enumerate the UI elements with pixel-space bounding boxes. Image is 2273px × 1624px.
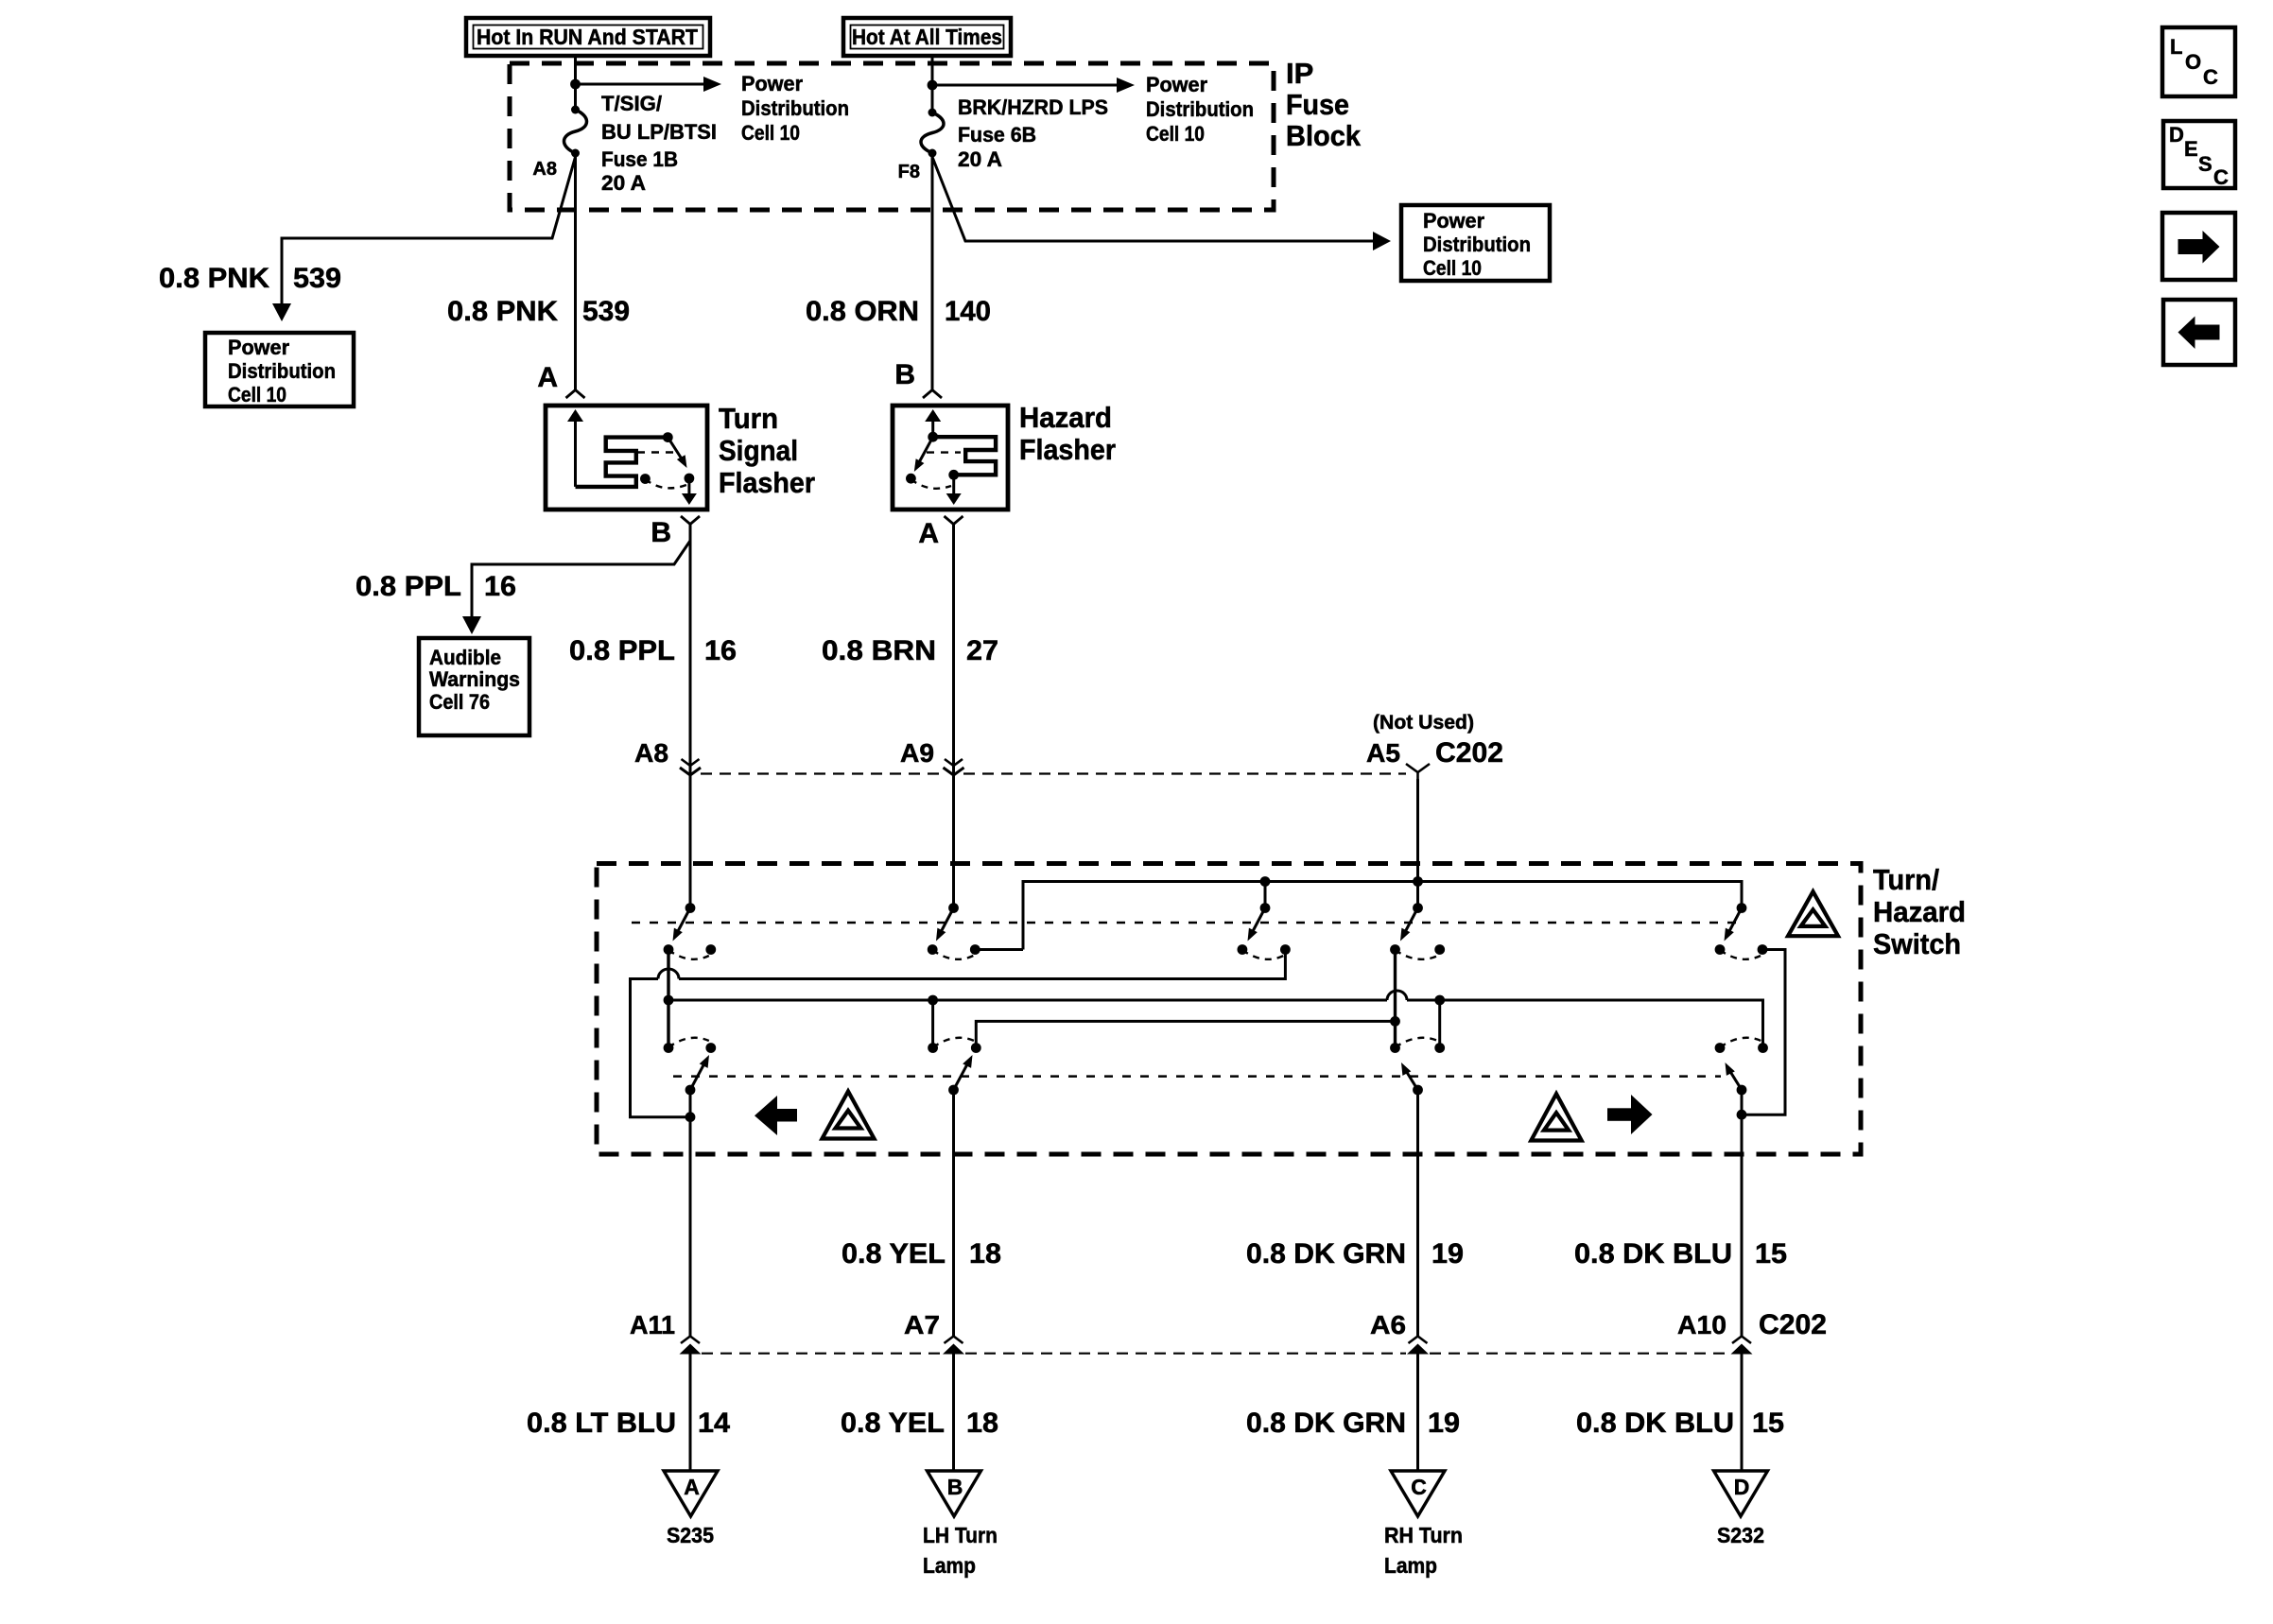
wire: arrow to Power Distribution Cell 10 (right, in fuse block) (932, 78, 1135, 93)
node: bus C junction at lower contact 4 stub (1434, 995, 1445, 1006)
wire: battery feed from header into fuse block (931, 56, 934, 85)
svg-text:C: C (1411, 1475, 1427, 1499)
hazard triangle symbol (lower left) (823, 1092, 875, 1139)
label: fuse 1B text (601, 92, 717, 195)
svg-text:19: 19 (1428, 1408, 1460, 1439)
wire: 0.8 DK GRN 19 to RH turn lamp (1416, 1346, 1419, 1471)
connector C202 upper: terminals at A9 (945, 759, 963, 766)
destination connector LH: triangle B (928, 1471, 981, 1516)
switch contacts 1 (lower row) (664, 1043, 674, 1053)
connector: female terminal at TSF pin B (681, 516, 700, 525)
svg-text:0.8 YEL: 0.8 YEL (842, 1238, 946, 1270)
svg-text:Distribution: Distribution (1423, 233, 1531, 256)
svg-text:539: 539 (582, 296, 630, 327)
svg-text:D: D (1734, 1475, 1750, 1499)
destination box: Power Distribution Cell 10 (left) (205, 333, 354, 406)
wire: 0.8 DK BLU 15 to S232 (1741, 1346, 1744, 1471)
svg-text:A: A (684, 1475, 700, 1499)
svg-text:0.8 PPL: 0.8 PPL (569, 635, 675, 666)
node: bus C junction at upper wiper 1 link (664, 995, 674, 1006)
destination connector S235: triangle A (664, 1471, 718, 1516)
svg-text:(Not Used): (Not Used) (1373, 712, 1474, 734)
wire: upper contact 1 to lower contact 1 link (667, 950, 669, 1048)
svg-text:14: 14 (698, 1408, 730, 1439)
connector C202 lower: terminals at A7 (945, 1337, 963, 1344)
switch bus B: left-turn output link (679, 950, 1285, 979)
node: bus C junction at lower contact 2 stub (928, 995, 938, 1006)
TSF: heater element (576, 438, 668, 487)
svg-text:O: O (2185, 50, 2201, 74)
svg-text:T/SIG/: T/SIG/ (601, 92, 662, 115)
svg-text:0.8 DK GRN: 0.8 DK GRN (1246, 1408, 1406, 1439)
label: 0.8 DK BLU 15 (above C202) (1574, 1238, 1787, 1270)
svg-text:C202: C202 (1759, 1309, 1827, 1340)
svg-text:27: 27 (966, 635, 998, 666)
svg-text:Turn/: Turn/ (1873, 863, 1939, 896)
legend: LOC box (2162, 27, 2235, 96)
switch wiper 2: arm arrow (936, 908, 954, 942)
svg-text:A8: A8 (634, 738, 668, 768)
label: 0.8 PPL 16 (branch) (356, 571, 516, 602)
switch wiper 1 (lower row): pivot (685, 1085, 696, 1096)
right-turn arrow symbol (1631, 1095, 1653, 1134)
svg-text:C: C (2213, 165, 2229, 189)
svg-text:Hazard: Hazard (1019, 401, 1112, 434)
svg-text:Cell 10: Cell 10 (741, 121, 800, 145)
switch swing arc 1 (upper row) (668, 950, 709, 959)
svg-text:A10: A10 (1677, 1310, 1726, 1339)
TSF: supply up-arrow (567, 409, 583, 487)
fuse F2: BRK/HZRD LPS fuse 6B 20A (921, 85, 944, 158)
svg-text:S235: S235 (667, 1523, 714, 1547)
label: fuse 6B text (958, 95, 1108, 171)
svg-text:A7: A7 (904, 1310, 940, 1339)
svg-text:Cell 10: Cell 10 (1423, 256, 1482, 280)
svg-text:Power: Power (1423, 209, 1484, 233)
svg-text:18: 18 (966, 1408, 998, 1439)
turn signal flasher U1: outline (546, 406, 707, 510)
node: bus A junction at A5 wire (1413, 876, 1423, 887)
switch contacts 3 (upper row) (1238, 944, 1248, 955)
switch contacts 2 (upper row) (928, 944, 938, 955)
switch wiper 5 (upper row): pivot (1737, 903, 1747, 913)
svg-text:RH Turn: RH Turn (1384, 1523, 1463, 1547)
label: Power Distribution Cell 10 (in fuse block, left) (741, 72, 849, 145)
svg-text:19: 19 (1431, 1238, 1464, 1270)
legend: left arrow box (2163, 300, 2235, 365)
switch contacts 4 (lower row) (1390, 1043, 1400, 1053)
hazard triangle symbol (lower right) (1531, 1094, 1581, 1140)
svg-text:A: A (918, 518, 939, 549)
switch wiper 4 (lower row): pivot (1413, 1085, 1423, 1096)
wire: lower wiper 5 to A10 (1741, 1090, 1744, 1337)
switch wiper 2 (upper row): pivot (948, 903, 959, 913)
label: 0.8 DK BLU 15 (below C202) (1576, 1408, 1784, 1439)
HF: output down-arrow (946, 475, 962, 505)
hazard triangle symbol (upper right) (1788, 891, 1838, 936)
switch wiper 5 (lower row): pivot (1737, 1085, 1747, 1096)
switch mechanical linkage (upper dashed) (632, 922, 1738, 924)
TSF: fixed contact node (heater end) (663, 432, 673, 442)
svg-text:Hot In RUN And START: Hot In RUN And START (477, 25, 698, 49)
connector C202 lower: terminals at A11 (681, 1337, 700, 1344)
legend: right arrow box (2162, 213, 2235, 280)
svg-text:S232: S232 (1717, 1523, 1764, 1547)
wire: 0.8 ORN 140 branch to Power Distribution (right) (932, 157, 1391, 251)
svg-text:539: 539 (293, 263, 341, 294)
svg-text:Switch: Switch (1873, 927, 1961, 960)
svg-text:Distribution: Distribution (228, 359, 336, 383)
switch swing arc 4 (lower row) (1396, 1038, 1438, 1047)
wire: lower wiper 2 to A7 (952, 1090, 955, 1337)
switch swing arc 3 (upper row) (1242, 950, 1284, 959)
label: Power Distribution Cell 10 (in fuse block, right) (1146, 73, 1254, 146)
switch swing arc 5 (upper row) (1720, 950, 1761, 959)
wire: upper contact 5 link to lower wiper 5 (1742, 950, 1785, 1115)
wire: upper contact 4 to lower contact 4 link (1394, 950, 1397, 1048)
svg-text:140: 140 (945, 296, 991, 327)
wire: 0.8 ORN 140 from fuse 6B to hazard flasher (931, 153, 934, 390)
switch wiper 1 (upper row): pivot (685, 903, 696, 913)
wire: lower wiper 4 to A6 (1416, 1090, 1419, 1337)
HF: wiper arrow (914, 437, 933, 472)
switch swing arc 2 (lower row) (933, 1038, 975, 1047)
switch contacts 1 (upper row) (664, 944, 674, 955)
svg-text:0.8 YEL: 0.8 YEL (841, 1408, 945, 1439)
svg-text:IP: IP (1286, 57, 1313, 90)
switch wiper 2 (lower row): pivot (948, 1085, 959, 1096)
svg-text:Warnings: Warnings (429, 667, 520, 691)
wire: stub bus C to lower right contact 4 (1438, 1000, 1441, 1048)
HF: supply up-arrow (925, 409, 941, 437)
svg-text:BRK/HZRD LPS: BRK/HZRD LPS (958, 95, 1108, 119)
wire: lower contact 2 to link of unit 4 (right-turn link) (976, 1021, 1395, 1047)
svg-text:B: B (894, 359, 915, 390)
label: IP Fuse Block (1286, 57, 1362, 152)
label: 0.8 PPL 16 (569, 635, 737, 666)
label: Turn/ Hazard Switch (1873, 863, 1966, 960)
wire: stub from bus A to wiper 3 pivot (1264, 882, 1267, 909)
label: 0.8 PNK 539 (447, 296, 630, 327)
switch swing arc 2 (upper row) (932, 950, 973, 959)
wire: stub bus C to lower left contact 2 (931, 1000, 934, 1048)
connector: female terminal at TSF pin A (566, 390, 585, 399)
svg-text:0.8 PNK: 0.8 PNK (447, 296, 558, 327)
TSF: swing arc (645, 479, 686, 488)
wire: 0.8 PPL 16 branch to Audible Warnings (462, 541, 690, 634)
switch swing arc 4 (upper row) (1396, 950, 1438, 959)
svg-text:Lamp: Lamp (923, 1553, 976, 1578)
svg-text:Hot At All Times: Hot At All Times (852, 25, 1002, 49)
destination connector S232: triangle D (1714, 1471, 1768, 1516)
HF: heater element (936, 437, 996, 475)
svg-text:20 A: 20 A (958, 147, 1002, 171)
node: bus A junction at wiper 3 stub (1260, 876, 1271, 887)
svg-text:Lamp: Lamp (1384, 1553, 1437, 1578)
svg-text:Cell 76: Cell 76 (429, 690, 490, 714)
svg-text:0.8 BRN: 0.8 BRN (822, 635, 936, 666)
svg-text:0.8 ORN: 0.8 ORN (806, 296, 919, 327)
header box: Hot In RUN And START (466, 18, 710, 56)
turn/hazard switch: dashed outline (597, 864, 1861, 1155)
svg-text:0.8 DK BLU: 0.8 DK BLU (1574, 1238, 1732, 1270)
svg-text:A8: A8 (532, 159, 557, 180)
switch mechanical linkage (lower dashed) (673, 1075, 1721, 1078)
svg-text:18: 18 (969, 1238, 1001, 1270)
svg-text:S: S (2198, 152, 2212, 176)
wire: 0.8 PNK 539 branch to Power Distribution (272, 157, 576, 321)
svg-text:15: 15 (1752, 1408, 1784, 1439)
HF: timing dashed link (927, 451, 961, 453)
label: RH Turn Lamp (1384, 1523, 1463, 1578)
node: junction on unit4 link (1390, 1016, 1400, 1027)
svg-text:D: D (2169, 123, 2184, 147)
svg-text:0.8 DK GRN: 0.8 DK GRN (1246, 1238, 1406, 1270)
switch contacts 2 (lower row) (928, 1043, 938, 1053)
svg-text:0.8 PPL: 0.8 PPL (356, 571, 461, 602)
svg-text:BU LP/BTSI: BU LP/BTSI (601, 120, 717, 144)
switch wiper 4 (upper row): pivot (1413, 903, 1423, 913)
HF: contact nodes (906, 474, 916, 484)
node: junction at lower wiper 5 wire (1737, 1110, 1747, 1120)
svg-text:Fuse: Fuse (1286, 88, 1349, 121)
destination connector RH: triangle C (1391, 1471, 1445, 1516)
connector C202 lower: dashed line (702, 1353, 942, 1355)
svg-text:Distribution: Distribution (1146, 97, 1254, 121)
svg-text:16: 16 (704, 635, 737, 666)
TSF: wiper arrow (668, 438, 686, 468)
svg-text:LH Turn: LH Turn (923, 1523, 998, 1547)
switch wiper 5 (lower row): arm arrow (1726, 1063, 1743, 1090)
svg-text:0.8 LT BLU: 0.8 LT BLU (527, 1408, 676, 1439)
left-turn arrow symbol (755, 1096, 777, 1135)
label: 0.8 YEL 18 (below C202) (841, 1408, 998, 1439)
svg-text:Block: Block (1286, 119, 1362, 152)
label: LH Turn Lamp (923, 1523, 998, 1578)
svg-text:Distribution: Distribution (741, 96, 849, 120)
label: 0.8 PNK 539 (branch) (159, 263, 341, 294)
header box: Hot At All Times (843, 18, 1011, 56)
connector C202 upper: dashed line (701, 772, 943, 774)
svg-text:20 A: 20 A (601, 171, 646, 195)
wire: 0.8 LT BLU 14 to S235 (689, 1346, 692, 1471)
node: junction at lower wiper 1 wire (685, 1112, 696, 1122)
wire: lower wiper 1 to A11 (689, 1090, 692, 1337)
svg-text:A9: A9 (900, 738, 934, 768)
label: 0.8 DK GRN 19 (above C202) (1246, 1238, 1464, 1270)
svg-text:Power: Power (228, 336, 289, 359)
wire: A5 lead into turn/hazard switch (1416, 779, 1419, 908)
switch bus A: flasher feed rail (1023, 882, 1742, 950)
switch bus C: hazard feed rail (668, 999, 1387, 1002)
svg-text:B: B (651, 517, 671, 548)
svg-text:16: 16 (484, 571, 516, 602)
label: 0.8 DK GRN 19 (below C202) (1246, 1408, 1460, 1439)
hazard flasher U2: outline (893, 406, 1008, 510)
wire: 0.8 BRN 27 from HF to C202 A9 and switch (952, 525, 955, 908)
TSF: output down-arrow (682, 478, 697, 505)
svg-text:Fuse 1B: Fuse 1B (601, 147, 678, 171)
svg-text:A: A (537, 362, 558, 393)
label: Turn Signal Flasher (719, 402, 815, 499)
fuse F1: T/SIG fuse 1B 20A (564, 84, 587, 158)
switch contacts 5 (lower row) (1715, 1043, 1726, 1053)
HF: input node (928, 432, 938, 442)
label: 0.8 BRN 27 (822, 635, 998, 666)
connector: female terminal at hazard flasher pin B (923, 390, 942, 399)
wire: upper contact 2 L-link to bus A (975, 948, 1023, 951)
node: fuse 1B feed junction (570, 79, 581, 90)
svg-text:A6: A6 (1370, 1310, 1406, 1339)
wire: arrow to Power Distribution Cell 10 (left, in fuse block) (576, 77, 722, 92)
svg-text:Turn: Turn (719, 402, 778, 435)
connector C202 upper: terminals at A8 (682, 759, 700, 766)
legend: DESC box (2163, 121, 2235, 189)
svg-text:B: B (947, 1475, 963, 1499)
switch wiper 4: arm arrow (1400, 908, 1418, 942)
switch contacts 5 (upper row) (1715, 944, 1726, 955)
destination box: Power Distribution Cell 10 (right) (1401, 205, 1550, 281)
switch swing arc 1 (lower row) (668, 1038, 709, 1047)
svg-text:Power: Power (1146, 73, 1207, 96)
svg-text:Audible: Audible (429, 646, 501, 669)
destination box: Audible Warnings Cell 76 (419, 638, 529, 735)
wire: 0.8 YEL 18 to LH turn lamp (952, 1346, 955, 1471)
switch contacts 4 (upper row) (1390, 944, 1400, 955)
svg-text:Flasher: Flasher (719, 466, 815, 499)
svg-text:L: L (2170, 35, 2182, 59)
node: fuse 6B feed junction (928, 80, 938, 91)
switch swing arc 5 (lower row) (1720, 1038, 1761, 1047)
TSF: timing dashed link (637, 451, 675, 453)
connector C202 lower: terminals at A10 (1732, 1337, 1751, 1344)
svg-text:Signal: Signal (719, 434, 798, 467)
svg-text:A11: A11 (630, 1310, 675, 1339)
svg-text:Fuse 6B: Fuse 6B (958, 123, 1036, 147)
label: Hazard Flasher (1019, 401, 1116, 466)
wire: 0.8 PPL 16 from TSF to C202 A8 and switch (689, 525, 692, 908)
svg-text:15: 15 (1755, 1238, 1787, 1270)
switch wiper 1 (lower row): arm arrow (690, 1055, 709, 1090)
switch wiper 2 (lower row): arm arrow (954, 1055, 973, 1090)
HF: swing arc (911, 479, 951, 489)
connector C202 lower: terminals at A6 (1409, 1337, 1428, 1344)
svg-text:C: C (2203, 65, 2218, 89)
svg-text:Power: Power (741, 72, 803, 95)
svg-text:0.8 PNK: 0.8 PNK (159, 263, 269, 294)
IP Fuse Block dashed outline (510, 63, 1274, 210)
connector C202 upper: unused female terminal A5 (1406, 764, 1430, 772)
switch wiper 4 (lower row): arm arrow (1401, 1063, 1418, 1090)
svg-text:E: E (2184, 137, 2198, 161)
label: 0.8 LT BLU 14 (527, 1408, 730, 1439)
svg-text:C202: C202 (1435, 737, 1503, 769)
label: 0.8 ORN 140 (806, 296, 991, 327)
svg-text:Flasher: Flasher (1019, 433, 1116, 466)
label: 0.8 YEL 18 (above C202) (842, 1238, 1001, 1270)
switch wiper 5: arm arrow (1725, 908, 1743, 942)
switch wiper 3 (upper row): pivot (1260, 903, 1271, 913)
switch wiper 1: arm arrow (673, 908, 691, 942)
wire: ignition feed from header into fuse block (574, 56, 577, 84)
wire: 0.8 PNK 539 from fuse 1B to turn signal flasher (574, 153, 577, 390)
svg-text:A5: A5 (1366, 738, 1400, 768)
connector: female terminal at HF pin A (945, 516, 963, 525)
svg-text:Hazard: Hazard (1873, 895, 1966, 928)
switch wiper 3: arm arrow (1248, 908, 1266, 942)
svg-text:Cell 10: Cell 10 (1146, 122, 1205, 146)
svg-text:F8: F8 (898, 162, 920, 182)
TSF: contact nodes (640, 474, 651, 484)
svg-text:Cell 10: Cell 10 (228, 383, 286, 406)
svg-text:0.8 DK BLU: 0.8 DK BLU (1576, 1408, 1734, 1439)
